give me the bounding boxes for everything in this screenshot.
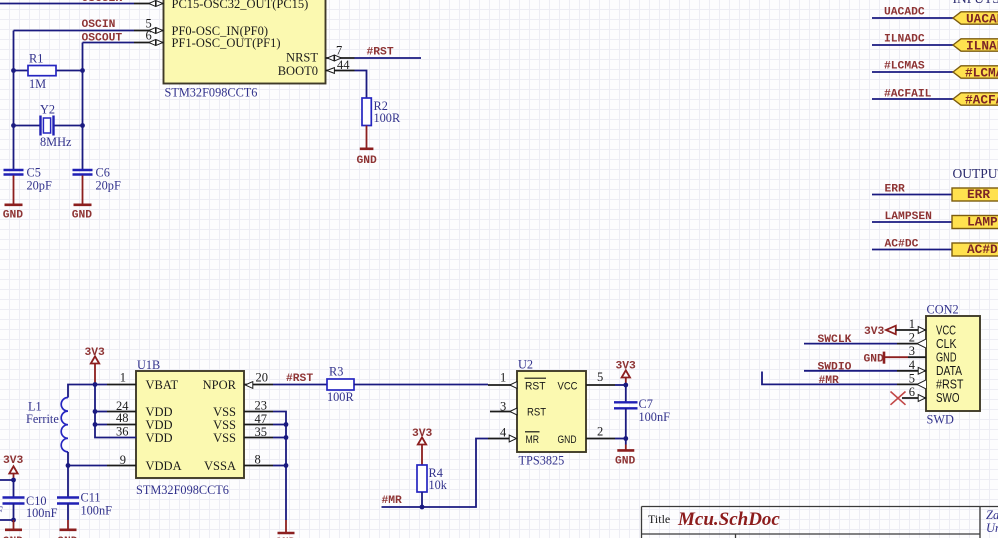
wire NPOR to R3 bbox=[244, 384, 327, 386]
pin 1 stub bbox=[488, 384, 517, 386]
junction dot VDDA bbox=[66, 463, 71, 468]
svg-text:8MHz: 8MHz bbox=[40, 135, 72, 149]
svg-text:48: 48 bbox=[116, 411, 129, 425]
svg-text:1: 1 bbox=[500, 371, 506, 385]
capacitor C6 bbox=[73, 166, 121, 193]
svg-text:Mcu.SchDoc: Mcu.SchDoc bbox=[677, 509, 780, 530]
svg-text:#MR: #MR bbox=[382, 495, 403, 507]
svg-text:NRST: NRST bbox=[286, 51, 318, 65]
svg-text:ERR: ERR bbox=[967, 187, 990, 202]
svg-text:9: 9 bbox=[120, 453, 126, 467]
wire left rail lower bbox=[0, 504, 14, 521]
svg-text:Ura: Ura bbox=[986, 521, 998, 535]
svg-text:GND: GND bbox=[72, 210, 93, 222]
svg-text:STM32F098CCT6: STM32F098CCT6 bbox=[136, 483, 229, 497]
wire pin 2 CLK bbox=[804, 343, 926, 345]
pin 44 input arrow bbox=[327, 68, 335, 74]
svg-text:OUTPUTS: OUTPUTS bbox=[953, 166, 998, 181]
svg-text:#ACFAIL: #ACFAIL bbox=[965, 93, 998, 108]
power GND at pin 3 bbox=[864, 352, 909, 366]
svg-text:20: 20 bbox=[256, 371, 269, 385]
svg-text:VCC: VCC bbox=[558, 381, 578, 393]
svg-text:4: 4 bbox=[909, 358, 916, 372]
svg-text:R1: R1 bbox=[29, 52, 43, 66]
port UACADC bbox=[953, 12, 998, 27]
capacitor C10 bbox=[3, 494, 58, 520]
svg-text:2: 2 bbox=[909, 331, 915, 345]
svg-text:3V3: 3V3 bbox=[864, 326, 885, 338]
svg-text:CON2: CON2 bbox=[927, 303, 959, 317]
wire VSS 47 bbox=[244, 424, 286, 426]
wire pin 5 #RST bbox=[762, 372, 926, 385]
svg-text:100nF: 100nF bbox=[639, 410, 671, 424]
svg-text:#RST: #RST bbox=[286, 373, 313, 385]
IC U1A (STM32F098CCT6 top fragment) bbox=[164, 0, 326, 84]
svg-text:GND: GND bbox=[3, 210, 24, 222]
svg-text:VCC: VCC bbox=[936, 324, 956, 338]
svg-text:Title: Title bbox=[648, 512, 670, 526]
pin 3 arrow bbox=[510, 408, 517, 415]
pin 1 arrow bbox=[918, 327, 925, 334]
pin 5 chevron bbox=[917, 380, 926, 389]
connector CON2 bbox=[926, 316, 980, 411]
svg-text:VDD: VDD bbox=[146, 405, 173, 419]
capacitor C5 bbox=[4, 166, 52, 193]
svg-text:100R: 100R bbox=[327, 390, 354, 404]
svg-text:10k: 10k bbox=[429, 478, 448, 492]
junction dot C7 bottom bbox=[623, 436, 628, 441]
svg-text:OSC32K: OSC32K bbox=[82, 0, 123, 5]
junction dots R1 bbox=[11, 68, 85, 73]
wire pin 4 DATA bbox=[804, 370, 926, 372]
svg-text:VSSA: VSSA bbox=[204, 459, 236, 473]
svg-text:6: 6 bbox=[909, 385, 915, 399]
svg-text:ILNADC: ILNADC bbox=[884, 34, 925, 46]
wire pin 3 GND bbox=[908, 356, 926, 358]
svg-text:8: 8 bbox=[255, 453, 261, 467]
svg-text:20pF: 20pF bbox=[96, 179, 121, 193]
svg-text:GND: GND bbox=[864, 354, 885, 366]
pin 7 I/O arrow bbox=[327, 55, 341, 61]
svg-text:100nF: 100nF bbox=[26, 506, 58, 520]
svg-text:VSS: VSS bbox=[213, 418, 236, 432]
junction dots Y2 bbox=[11, 123, 85, 128]
ground below R2 bbox=[357, 126, 378, 168]
port #LCMAS bbox=[953, 66, 998, 81]
pin 1 arrow bbox=[510, 382, 517, 389]
svg-text:C11: C11 bbox=[81, 491, 101, 505]
3V3 rail vertical at U1B bbox=[95, 385, 136, 438]
wire PC15 pin bbox=[0, 3, 164, 5]
wire OSCOUT bbox=[83, 42, 164, 44]
IC U2 TPS3825 bbox=[517, 371, 586, 452]
svg-text:#RST: #RST bbox=[367, 47, 394, 59]
svg-text:100R: 100R bbox=[374, 111, 401, 125]
junction dot left rail lower bbox=[11, 518, 16, 523]
ground below C5 bbox=[3, 176, 24, 222]
svg-text:23: 23 bbox=[255, 399, 268, 413]
power 3V3 at C10 bbox=[3, 455, 24, 480]
pin 4 arrow bbox=[509, 435, 516, 442]
wire left rail upper bbox=[0, 480, 14, 497]
svg-text:3: 3 bbox=[500, 400, 506, 414]
svg-text:1: 1 bbox=[909, 317, 915, 331]
ground below C10 bbox=[3, 520, 24, 538]
svg-text:Ferrite: Ferrite bbox=[26, 412, 59, 426]
wire OSCOUT vertical bbox=[82, 43, 84, 170]
svg-text:C5: C5 bbox=[27, 166, 41, 180]
power 3V3 above C7 bbox=[616, 361, 637, 386]
IC U1B (STM32F098CCT6 power section) bbox=[136, 371, 244, 478]
svg-text:36: 36 bbox=[116, 425, 129, 439]
svg-text:PF1-OSC_OUT(PF1): PF1-OSC_OUT(PF1) bbox=[172, 36, 281, 50]
svg-text:UACADC: UACADC bbox=[966, 12, 998, 27]
svg-text:MR: MR bbox=[526, 434, 540, 446]
svg-text:SWD: SWD bbox=[927, 413, 954, 427]
pin 6 arrow bbox=[918, 395, 925, 402]
port AC#DC bbox=[952, 242, 998, 257]
pin 4 arrow bbox=[918, 367, 925, 374]
pin 5 I/O arrow bbox=[149, 28, 163, 34]
svg-text:47: 47 bbox=[255, 412, 268, 426]
svg-text:F: F bbox=[0, 504, 3, 518]
wire VDD 24 bbox=[95, 411, 136, 413]
svg-text:RST: RST bbox=[527, 407, 546, 419]
svg-text:GND: GND bbox=[936, 351, 957, 365]
svg-text:Y2: Y2 bbox=[40, 103, 55, 117]
wire VDD 48 bbox=[95, 424, 136, 426]
wire VSSA 8 bbox=[244, 465, 286, 467]
svg-text:TPS3825: TPS3825 bbox=[519, 454, 565, 468]
junction dot left rail bbox=[11, 478, 16, 483]
svg-text:#LCMAS: #LCMAS bbox=[965, 66, 998, 81]
pin VDD names bbox=[146, 405, 173, 445]
svg-text:1M: 1M bbox=[29, 77, 46, 91]
wire #ACFAIL bbox=[872, 98, 953, 100]
junction dot #MR wire bbox=[420, 505, 425, 510]
wire VSS 35 bbox=[244, 437, 286, 439]
svg-text:VSS: VSS bbox=[213, 405, 236, 419]
wire ERR bbox=[872, 194, 952, 196]
pin VSS names bbox=[213, 405, 236, 445]
pin 4 wire from #MR net bbox=[382, 439, 510, 508]
junction dot C7 top bbox=[623, 383, 628, 388]
pin 2 stub to C7 bbox=[586, 438, 626, 440]
power 3V3 above U1B bbox=[85, 347, 106, 385]
power 3V3 above R4 bbox=[412, 428, 433, 465]
wire OSCIN vertical bbox=[13, 31, 15, 170]
junction dots VSS rail bbox=[284, 422, 289, 468]
pin 3 stub bbox=[490, 411, 517, 413]
svg-text:7: 7 bbox=[336, 43, 342, 57]
svg-text:4: 4 bbox=[500, 426, 507, 440]
svg-text:PC15-OSC32_OUT(PC15): PC15-OSC32_OUT(PC15) bbox=[172, 0, 309, 11]
wire R4 bottom bbox=[421, 492, 423, 507]
svg-text:RST: RST bbox=[525, 381, 546, 393]
pin numbers 23 47 35 8 bbox=[255, 399, 268, 467]
pin 6 I/O arrow bbox=[149, 40, 163, 46]
port LAMPSEN bbox=[952, 214, 998, 229]
ground below C7 bbox=[615, 439, 636, 468]
wire BOOT0 to R2 bbox=[326, 71, 367, 99]
svg-text:SWDIO: SWDIO bbox=[818, 362, 852, 374]
svg-text:C7: C7 bbox=[639, 397, 653, 411]
svg-text:Zas: Zas bbox=[986, 508, 998, 522]
pin 5 stub to C7 bbox=[586, 384, 626, 386]
inductor L1 bbox=[26, 398, 68, 452]
resistor R2 bbox=[362, 98, 401, 126]
svg-text:GND: GND bbox=[558, 434, 577, 446]
no-connect X at pin 6 bbox=[891, 392, 906, 405]
ground below VSS rail bbox=[275, 520, 296, 538]
pin numbers 24 48 36 bbox=[116, 399, 129, 439]
wire #RST long to U2 bbox=[354, 384, 488, 386]
svg-text:R3: R3 bbox=[329, 365, 343, 379]
svg-text:OSCIN: OSCIN bbox=[82, 19, 116, 31]
svg-text:STM32F098CCT6: STM32F098CCT6 bbox=[165, 86, 258, 100]
svg-text:ILNADC: ILNADC bbox=[966, 39, 998, 54]
wire #LCMAS bbox=[872, 71, 953, 73]
svg-text:GND: GND bbox=[615, 456, 636, 468]
svg-text:6: 6 bbox=[146, 29, 152, 43]
title block frame bbox=[642, 507, 998, 538]
svg-text:LAMPSEN: LAMPSEN bbox=[967, 214, 998, 229]
svg-text:INPUTS: INPUTS bbox=[953, 0, 998, 6]
svg-text:C6: C6 bbox=[96, 166, 110, 180]
wire UACADC bbox=[872, 17, 953, 19]
ground below C6 bbox=[72, 176, 93, 222]
svg-text:1: 1 bbox=[120, 371, 126, 385]
svg-text:U1B: U1B bbox=[137, 358, 160, 372]
capacitor C7 bbox=[614, 385, 670, 439]
capacitor C11 bbox=[57, 491, 112, 518]
svg-text:SWO: SWO bbox=[936, 391, 960, 405]
svg-text:VDDA: VDDA bbox=[146, 459, 182, 473]
svg-text:100nF: 100nF bbox=[81, 504, 113, 518]
svg-text:GND: GND bbox=[357, 155, 378, 167]
svg-text:BOOT0: BOOT0 bbox=[278, 64, 318, 78]
wire pin 6 SWO bbox=[902, 397, 926, 399]
wire VSS 23 bbox=[244, 412, 286, 521]
port ERR bbox=[952, 187, 998, 202]
svg-text:VDD: VDD bbox=[146, 418, 173, 432]
svg-text:#RST: #RST bbox=[936, 378, 964, 392]
svg-text:20pF: 20pF bbox=[27, 179, 52, 193]
svg-text:UACADC: UACADC bbox=[884, 7, 925, 19]
svg-text:#LCMAS: #LCMAS bbox=[884, 61, 925, 73]
svg-text:3: 3 bbox=[909, 344, 915, 358]
wire ILNADC bbox=[872, 44, 953, 46]
svg-text:VBAT: VBAT bbox=[146, 378, 179, 392]
ground below C11 bbox=[57, 504, 78, 538]
svg-text:35: 35 bbox=[255, 425, 268, 439]
svg-text:DATA: DATA bbox=[936, 364, 963, 378]
svg-text:U2: U2 bbox=[518, 358, 533, 372]
svg-text:5: 5 bbox=[909, 371, 915, 385]
wire L1 bottom to C11 bbox=[67, 452, 69, 497]
power 3V3 at pin 1 bbox=[864, 326, 896, 338]
crystal Y2 bbox=[14, 103, 83, 150]
junction dots 3V3 rail bbox=[93, 382, 98, 427]
wire LAMPSEN bbox=[872, 221, 952, 223]
resistor R4 bbox=[417, 465, 448, 492]
wire VDDA row bbox=[68, 465, 136, 467]
svg-text:AC#DC: AC#DC bbox=[967, 242, 998, 257]
svg-text:5: 5 bbox=[597, 370, 603, 384]
pin 20 input arrow bbox=[245, 382, 253, 389]
resistor R3 bbox=[327, 365, 354, 405]
svg-text:VDD: VDD bbox=[146, 431, 173, 445]
wire VBAT row bbox=[68, 385, 136, 398]
svg-text:2: 2 bbox=[597, 425, 603, 439]
port ILNADC bbox=[953, 39, 998, 54]
pin PC15 I/O arrow bbox=[149, 1, 163, 7]
wire pin 1 VCC bbox=[896, 329, 926, 331]
wire #RST (NRST pin) bbox=[326, 57, 422, 59]
svg-text:CLK: CLK bbox=[936, 337, 957, 351]
port #ACFAIL bbox=[953, 93, 998, 108]
svg-text:VSS: VSS bbox=[213, 431, 236, 445]
resistor R1 bbox=[14, 52, 83, 92]
pin 2 chevron bbox=[917, 339, 926, 348]
wire AC#DC bbox=[872, 249, 952, 251]
svg-text:NPOR: NPOR bbox=[203, 378, 237, 392]
wire OSCIN bbox=[14, 30, 164, 32]
